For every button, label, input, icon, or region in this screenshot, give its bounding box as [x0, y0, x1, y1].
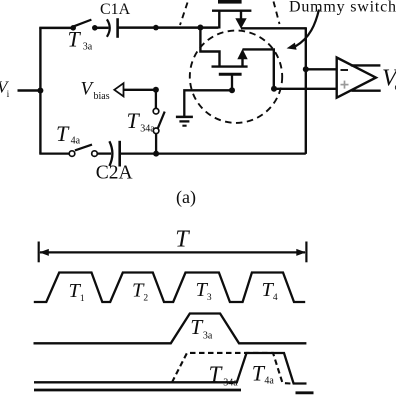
- op-amp U1: [337, 58, 376, 98]
- label T34a pulse: [209, 362, 239, 389]
- wire left input bus vertical: [39, 27, 41, 153]
- waveform T34a dashed: [172, 353, 291, 384]
- measure bar right: [305, 242, 307, 263]
- wire op-amp upper output rail: [351, 64, 381, 66]
- svg-text:2: 2: [143, 293, 148, 303]
- svg-text:i: i: [7, 90, 10, 100]
- svg-text:bias: bias: [94, 91, 110, 102]
- svg-text:T: T: [175, 226, 190, 252]
- wire Vi to input bus: [18, 89, 41, 91]
- wire bottom waveform baseline: [34, 389, 241, 392]
- wire right bus vertical: [305, 27, 307, 154]
- transistor M2 dummy switch: [200, 28, 273, 91]
- svg-text:T: T: [56, 121, 70, 146]
- wire M1 source to right bus: [241, 27, 306, 29]
- svg-text:T: T: [127, 108, 141, 133]
- node M2 gate dot: [229, 87, 235, 93]
- node Vi label: [0, 78, 10, 101]
- svg-text:4: 4: [273, 293, 278, 303]
- wire Vbias to T34a: [124, 89, 156, 91]
- node minus input dot: [303, 66, 309, 72]
- svg-text:34a: 34a: [223, 377, 238, 388]
- node Vo label: [382, 65, 396, 93]
- wire bottom branch left: [39, 152, 69, 154]
- label T3: [196, 279, 212, 303]
- label T3a: [68, 26, 93, 52]
- label T3a pulse: [190, 315, 213, 342]
- switch T34a: [153, 108, 165, 133]
- wire op-amp lower output rail: [351, 89, 380, 91]
- svg-text:3: 3: [207, 293, 212, 303]
- node Vbias junction dot: [153, 87, 159, 93]
- svg-text:T: T: [68, 26, 82, 51]
- svg-text:1: 1: [80, 294, 85, 304]
- node Vbias label: [81, 78, 110, 102]
- node M2 source dot: [271, 86, 277, 92]
- svg-text:3a: 3a: [203, 330, 213, 341]
- label T4a pulse: [252, 361, 275, 387]
- svg-text:4a: 4a: [264, 375, 274, 386]
- label T4: [262, 279, 278, 303]
- label T2: [132, 279, 148, 303]
- wire top branch left: [39, 27, 73, 30]
- wire switch T4a to C2A: [97, 152, 111, 154]
- switch T3a: [70, 20, 97, 31]
- svg-text:T: T: [209, 362, 224, 387]
- wire bottom waveform right segment: [296, 391, 314, 394]
- svg-text:C2A: C2A: [96, 163, 133, 184]
- waveform T4a solid: [34, 353, 307, 384]
- capacitor C2A: [109, 141, 119, 167]
- wire right bus to op-amp minus input: [306, 68, 337, 70]
- wire Vbias dot down to T34a: [155, 90, 157, 109]
- label T34a: [127, 108, 156, 135]
- waveform T3a: [34, 314, 307, 344]
- wire C1A to M1 drain: [118, 26, 219, 29]
- svg-text:34a: 34a: [140, 124, 155, 135]
- svg-text:C1A: C1A: [100, 1, 131, 18]
- label T4a: [56, 121, 81, 147]
- svg-text:(a): (a): [176, 187, 196, 208]
- dashed circle dummy switch: [190, 30, 282, 122]
- wire M2 gate to ground: [184, 90, 232, 116]
- ground: [176, 117, 193, 126]
- node Vi junction dot: [37, 88, 43, 94]
- wire switch T3a to C1A: [97, 27, 109, 30]
- arrow dummy switch pointer: [287, 10, 319, 50]
- svg-text:4a: 4a: [71, 136, 81, 147]
- waveform T1-T4 clock: [34, 273, 305, 303]
- node bottom plate junction dot: [153, 151, 159, 157]
- measure bar left: [38, 242, 40, 263]
- arrow period measure: [39, 249, 306, 256]
- dashed circle upper (main switch, cropped): [180, 2, 280, 26]
- transistor M1 main switch: [212, 0, 251, 29]
- node top plate dot: [153, 25, 159, 31]
- svg-text:Dummy switch: Dummy switch: [289, 0, 396, 15]
- wire C2A to right bus: [120, 152, 306, 154]
- wire M2 source to op-amp plus input: [274, 88, 337, 90]
- capacitor C1A: [107, 18, 118, 38]
- node dummy tap junction dot: [197, 25, 203, 31]
- switch T4a: [69, 145, 97, 157]
- arrow Vbias source: [114, 83, 123, 96]
- label T1: [69, 280, 85, 304]
- wire T34a to bottom branch: [155, 134, 157, 154]
- svg-text:3a: 3a: [83, 42, 93, 53]
